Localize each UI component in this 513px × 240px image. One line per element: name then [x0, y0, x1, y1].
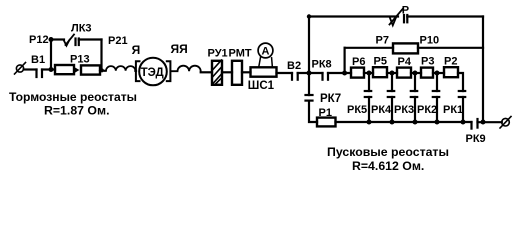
- svg-text:Р21: Р21: [108, 35, 128, 47]
- wire RK8 to ladder node: [328, 72, 351, 74]
- contactor RK4: [388, 73, 394, 122]
- motor brush left: [136, 61, 140, 81]
- node dot ladder branch: [342, 71, 347, 76]
- relay RU1 box with hatch: [212, 60, 222, 85]
- node dot RK1 bus: [461, 120, 466, 125]
- svg-text:В1: В1: [31, 54, 45, 66]
- resistor P3 box: [421, 68, 433, 78]
- svg-text:РК4: РК4: [371, 104, 392, 116]
- svg-text:Р12: Р12: [29, 34, 49, 46]
- svg-text:Р6: Р6: [352, 56, 365, 68]
- node dot at B1 junction: [49, 67, 54, 72]
- svg-text:РУ1: РУ1: [208, 48, 228, 60]
- svg-text:В2: В2: [287, 60, 301, 72]
- resistor P6 box: [351, 68, 364, 78]
- resistor P13 box 1: [55, 65, 74, 74]
- wire terminal to B1: [24, 68, 37, 70]
- bottom bus wire: [336, 121, 472, 123]
- wire RK9 to right terminal: [478, 121, 502, 123]
- wire RU1 to RMT: [222, 71, 232, 73]
- switch B2: [292, 73, 298, 80]
- svg-text:ЯЯ: ЯЯ: [171, 42, 188, 56]
- resistor P4 box: [397, 68, 411, 78]
- svg-text:Р5: Р5: [374, 55, 387, 67]
- P7 row left wire: [345, 47, 393, 49]
- svg-text:РК9: РК9: [466, 133, 486, 145]
- svg-text:Р3: Р3: [421, 55, 434, 67]
- wire P4-P3: [411, 72, 421, 74]
- svg-text:РМТ: РМТ: [229, 48, 252, 60]
- wire B1 to node: [42, 68, 55, 70]
- node dot RK4: [390, 71, 395, 76]
- resistor P13 box 2: [81, 65, 100, 74]
- wire B2 to node: [298, 72, 323, 74]
- contactor RK9: [472, 119, 478, 129]
- svg-text:ШС1: ШС1: [248, 80, 275, 92]
- svg-text:РК3: РК3: [394, 104, 414, 116]
- wire ShS1 to B2: [277, 72, 293, 74]
- node dot RK5: [367, 71, 372, 76]
- P7 row right wire: [418, 47, 483, 49]
- svg-text:Р2: Р2: [444, 55, 457, 67]
- svg-text:Я: Я: [132, 43, 141, 57]
- node dot RK2: [435, 71, 440, 76]
- svg-text:РК7: РК7: [320, 93, 341, 105]
- wire P3-P2: [433, 72, 444, 74]
- wire YaYa to RU1: [201, 71, 212, 73]
- contactor RK1: [459, 91, 465, 122]
- node P12 branch vertical wire: [50, 40, 52, 70]
- node P12 dot: [49, 37, 54, 42]
- node dot RK4 bus: [390, 120, 395, 125]
- node dot left bus on main line: [307, 71, 312, 76]
- contactor RK5: [365, 73, 371, 122]
- resistor P7-P10 box: [393, 43, 418, 53]
- wire P13 to coil, junction dot: [100, 69, 105, 72]
- svg-text:РК8: РК8: [312, 59, 332, 71]
- wire P2 to corner: [458, 73, 463, 91]
- left bus vertical wire: [308, 17, 310, 96]
- wire coil to brush: [134, 70, 137, 72]
- svg-text:РК1: РК1: [443, 104, 463, 116]
- node dot RK2 bus: [435, 120, 440, 125]
- resistor P1 box: [317, 118, 336, 127]
- svg-text:R=1.87 Ом.: R=1.87 Ом.: [44, 104, 110, 118]
- svg-text:Р7: Р7: [376, 35, 389, 47]
- inductor YaYa (winding): [171, 66, 201, 72]
- svg-text:РК5: РК5: [347, 104, 367, 116]
- svg-text:Р: Р: [402, 5, 409, 17]
- resistor P5 box: [373, 67, 387, 77]
- svg-text:Пусковые реостаты: Пусковые реостаты: [327, 145, 449, 159]
- inductor Ya (winding): [106, 66, 135, 71]
- ammeter A: [258, 43, 273, 58]
- motor brush right: [167, 61, 171, 81]
- node dot RK3: [413, 71, 418, 76]
- node P21 vertical wire: [100, 40, 102, 71]
- branch up to P7 row: [344, 48, 346, 73]
- top line right segment: [407, 15, 483, 17]
- wire LK3 to P21 corner: [79, 38, 102, 40]
- svg-text:R=4.612 Ом.: R=4.612 Ом.: [352, 159, 424, 173]
- contactor RK7: [306, 95, 313, 101]
- right bus vertical wire: [482, 17, 484, 123]
- wire RK7 to P1: [309, 101, 317, 122]
- resistor P2 box: [444, 67, 458, 77]
- svg-text:Р10: Р10: [420, 35, 440, 47]
- node dot RK5 bus: [367, 120, 372, 125]
- ammeter A leads: [259, 57, 273, 67]
- node dot RK3 bus: [413, 120, 418, 125]
- shunt ShS1 box: [251, 67, 277, 76]
- relay RMT box: [232, 61, 242, 85]
- motor TED circle U1: [139, 58, 167, 86]
- node dot top left corner: [307, 14, 311, 18]
- wire P6-P5: [364, 72, 373, 74]
- breaker P contact: [390, 9, 408, 26]
- node dot right bus bottom: [481, 120, 486, 125]
- contactor RK2: [433, 73, 439, 122]
- svg-text:РК2: РК2: [417, 104, 437, 116]
- tap arrow between P13 boxes: [75, 67, 80, 72]
- svg-text:ЛК3: ЛК3: [71, 23, 92, 35]
- wire P12 to LK3: [51, 38, 64, 40]
- top line left segment: [309, 15, 398, 17]
- svg-text:ТЭД: ТЭД: [141, 67, 164, 79]
- svg-text:А: А: [262, 46, 270, 58]
- contactor RK8: [323, 73, 329, 80]
- svg-text:Тормозные реостаты: Тормозные реостаты: [9, 90, 137, 104]
- contactor LK3: [64, 35, 79, 46]
- svg-text:Р4: Р4: [398, 56, 412, 68]
- right terminal: [500, 117, 511, 129]
- wire RMT to ShS1: [242, 71, 251, 73]
- svg-text:Р1: Р1: [319, 107, 332, 119]
- contactor RK3: [411, 73, 417, 122]
- svg-text:Р13: Р13: [70, 54, 90, 66]
- switch B1: [37, 70, 43, 78]
- left terminal: [15, 63, 26, 75]
- wire P5-P4: [387, 72, 397, 74]
